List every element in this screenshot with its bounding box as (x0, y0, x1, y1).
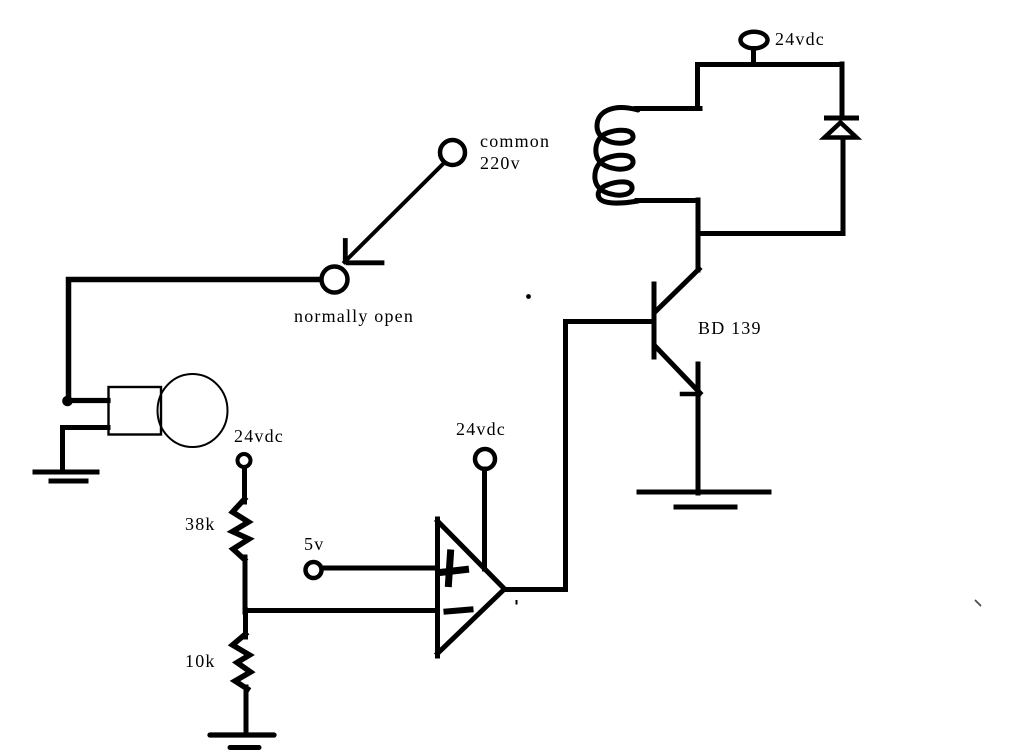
wire: 24vdc terminal stub down to top rail (751, 48, 756, 64)
transistor Q1 emitter arrow tick (682, 392, 699, 397)
wire: divider node down to 10k (243, 610, 248, 637)
lamp bulb circle (158, 374, 228, 447)
stray dot artifact (526, 294, 531, 299)
resistor R1 38k (233, 499, 250, 560)
label common 220v (480, 131, 550, 152)
label 24vdc (comparator) (456, 419, 506, 440)
label BD 139 (698, 318, 762, 339)
wire: diode cathode to top rail (840, 64, 845, 116)
wire: divider top (242, 468, 247, 502)
transistor Q1 collector diagonal (655, 269, 699, 312)
wire: junction to lamp (68, 398, 108, 403)
terminal common 220v (440, 140, 465, 165)
terminal normally open (322, 267, 348, 293)
wire: 38k to divider node (243, 557, 248, 612)
transistor Q1 emitter diagonal (655, 346, 700, 393)
stray tick artifact bottom right (976, 601, 981, 606)
terminal 24vdc (divider supply) (238, 454, 251, 467)
label 5v (304, 534, 324, 555)
label 24vdc (relay supply) (775, 29, 825, 50)
lamp base square (109, 387, 162, 435)
inductor L1 relay coil (595, 108, 638, 203)
wire: relay top rail (698, 65, 843, 114)
wire: emitter down to ground (696, 364, 701, 493)
ground under transistor (639, 490, 769, 495)
terminal 24vdc (relay supply) (741, 32, 768, 49)
diode D1 triangle (825, 123, 857, 138)
label 38k (185, 514, 216, 535)
label 24vdc (divider) (234, 426, 284, 447)
resistor R2 10k (233, 634, 251, 689)
wire: relay bottom rail to diode anode (698, 138, 843, 234)
transistor Q1 BD139 base bar (652, 284, 657, 357)
op-amp + input symbol (440, 553, 466, 584)
wire: comparator supply down into triangle (482, 469, 487, 569)
terminal 5v (306, 562, 322, 578)
wire: divider node to - input (245, 608, 437, 613)
arrow head ticks (343, 241, 348, 261)
op-amp U1 comparator triangle (438, 519, 505, 656)
wire: 5v to + input (324, 566, 437, 571)
terminal 24vdc (comparator supply) (475, 449, 495, 469)
ground under lamp (35, 470, 97, 475)
wire: comparator output to transistor base (505, 322, 654, 590)
wire: 10k to ground (244, 687, 249, 731)
op-amp - input symbol (447, 610, 471, 612)
wire: normally open to left rail (69, 280, 321, 400)
diode D1 cathode bar (827, 116, 857, 121)
wire: coil bottom to collector node (696, 200, 701, 270)
wire: coil bottom stub (637, 198, 698, 203)
wire: lamp return to ground (63, 428, 109, 472)
small dot near op-amp output (516, 600, 518, 605)
wire: coil top stub (636, 106, 700, 111)
label normally open (294, 306, 414, 327)
ground under divider (210, 732, 274, 737)
junction dot at lamp feed (62, 396, 73, 407)
label 10k (185, 651, 216, 672)
switch blade diagonal with arrow (345, 165, 443, 262)
